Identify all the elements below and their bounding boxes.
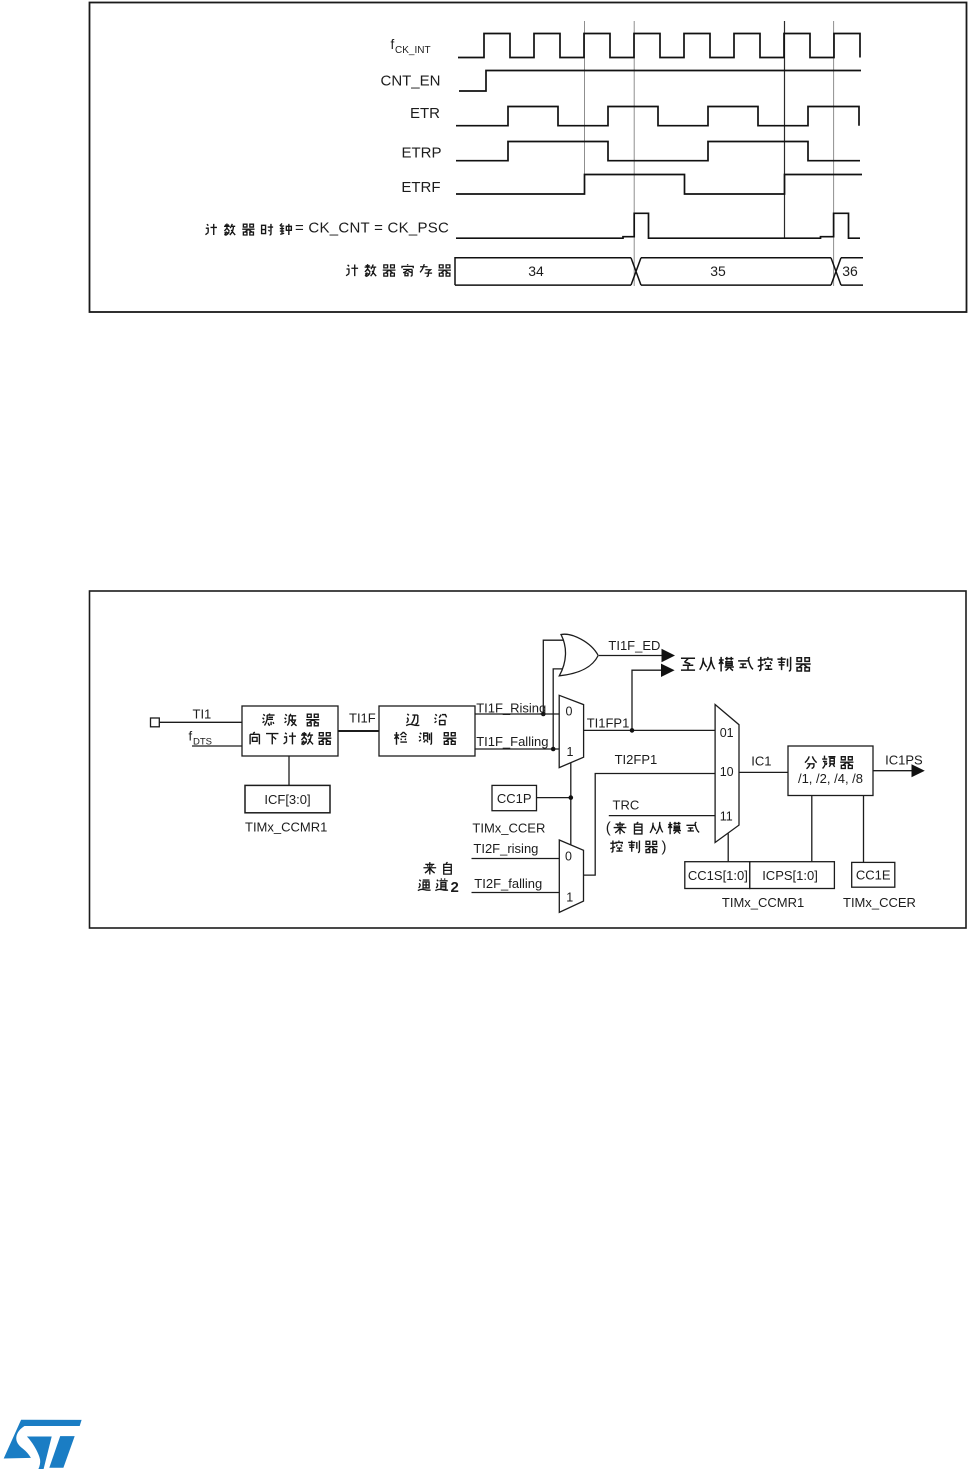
text 边沿 in detector box [406,714,446,726]
wire counter clock CK_CNT waveform with two pulses [456,213,860,238]
wire mux2 output up to TI2FP1 [584,774,716,876]
gridline at clock edge x=584 [584,21,586,174]
text 通道2 (channel 2) [418,879,448,891]
counter register bus bottom line [455,284,863,286]
ICF[3:0] box [245,785,330,812]
wire divider to CC1E box [863,796,865,863]
svg-text:ICF[3:0]: ICF[3:0] [264,792,310,807]
svg-text:CK_INT: CK_INT [395,45,431,56]
svg-text:TIMx_CCER: TIMx_CCER [843,895,916,910]
wire TI1F_Rising [475,713,559,715]
svg-text:f: f [391,37,395,52]
svg-text:TIMx_CCMR1: TIMx_CCMR1 [722,895,804,910]
svg-text:0: 0 [566,705,573,719]
wire big mux select to CC1S [727,834,729,862]
junction dot on TI1FP1 [630,728,635,733]
arrowhead IC1PS [912,764,925,777]
counter register bus top line [455,258,863,285]
text 至从模式控制器 (to slave mode controller) [681,657,811,672]
svg-text:36: 36 [842,263,858,279]
wire divider to ICPS box [811,796,813,862]
text 控制器) [610,841,657,853]
svg-text:TI1FP1: TI1FP1 [587,716,630,731]
svg-text:2: 2 [451,879,459,896]
svg-text:TI1: TI1 [193,707,212,722]
svg-text:ICPS[1:0]: ICPS[1:0] [762,868,818,883]
text 向下计数器 in filter box [250,732,331,745]
svg-text:ETR: ETR [410,105,440,122]
svg-text:): ) [662,839,667,856]
svg-text:ETRP: ETRP [401,145,441,162]
wire IC1PS output [873,770,912,772]
gridline at clock edge x=833 [833,21,835,286]
svg-text:IC1: IC1 [751,754,771,769]
junction dot on select line [569,795,574,800]
wire TI1F [338,730,379,732]
text 来自 (from) [423,862,451,874]
CC1E box [852,862,895,887]
wire CC1P to select line [537,797,571,799]
svg-text:(: ( [606,820,611,837]
wire ETRF waveform [456,175,862,195]
figure 2 frame [90,591,967,928]
svg-text:01: 01 [720,726,734,740]
bus crossover X2 [831,258,841,285]
svg-text:TI2F_falling: TI2F_falling [474,876,542,891]
ICPS[1:0] box [750,862,835,889]
arrowhead TI1F_ED [662,649,676,663]
svg-text:TI2F_rising: TI2F_rising [473,841,538,856]
wire TI1FP1 to slave mode controller branch [632,670,662,730]
bus crossover X1 [631,258,641,285]
label 计数器时钟 (counter clock) [205,223,291,235]
wire to ICF box [288,756,290,785]
svg-text:0: 0 [565,850,572,864]
svg-text:= CK_CNT = CK_PSC: = CK_CNT = CK_PSC [295,220,449,237]
filter box 滤波器向下计数器 [242,706,338,756]
multiplexer mux3 (input selection CC1S) [715,705,739,843]
svg-text:TIMx_CCMR1: TIMx_CCMR1 [245,820,327,835]
text 分频器 (divider) [805,756,853,769]
junction dot on TI1F_Falling [551,747,556,752]
wire ETRP waveform [456,142,860,161]
svg-text:DTS: DTS [193,736,212,747]
wire TI1 [159,721,242,723]
wire ETR waveform [456,107,859,126]
wire TI2F_rising [472,858,560,860]
svg-text:CNT_EN: CNT_EN [380,73,440,90]
svg-text:TIMx_CCER: TIMx_CCER [472,821,545,836]
text 滤波器 in filter box [263,713,320,725]
svg-text:1: 1 [566,891,573,905]
input pin TI1 square [151,718,160,727]
svg-text:f: f [189,728,193,743]
ST logo [4,1420,82,1469]
svg-text:10: 10 [720,765,734,779]
wire OR gate bottom input riser [553,669,566,749]
wire OR gate output TI1F_ED [599,655,663,657]
gridline (dark) at clock edge x=784 [784,21,786,238]
label 计数器寄存器 (counter register) [346,264,451,276]
svg-text:TI2FP1: TI2FP1 [615,752,658,767]
svg-text:11: 11 [720,809,733,823]
wire f_DTS [192,745,242,747]
multiplexer mux1 (TI1 edge polarity) [559,695,583,767]
junction dot on TI1F_Rising [541,712,546,717]
svg-text:TI1F_Falling: TI1F_Falling [476,734,548,749]
or-gate U1 (edge OR) [559,634,598,676]
arrowhead to slave mode controller [661,664,675,677]
svg-text:TI1F: TI1F [349,711,376,726]
divider box 分频器 [788,746,873,796]
wire TI1FP1 [584,729,716,731]
svg-text:34: 34 [528,263,544,279]
gridline at clock edge x=634 [633,21,635,286]
svg-text:ETRF: ETRF [401,179,440,196]
wire IC1 [739,771,788,773]
svg-text:IC1PS: IC1PS [885,753,923,768]
wire CNT_EN waveform [459,71,861,92]
svg-text:TI1F_ED: TI1F_ED [608,638,660,653]
CC1P box [492,785,537,810]
wire f_CK_INT clock waveform [458,34,860,58]
edge detector box 边沿检测器 [379,706,475,756]
wire TRC [609,815,715,817]
svg-text:CC1E: CC1E [856,868,891,883]
svg-text:CC1P: CC1P [497,791,532,806]
wire TI2F_falling [472,892,560,894]
wire TI1F_Falling [475,748,559,750]
svg-text:35: 35 [710,263,726,279]
text 检测器 in detector box [394,732,456,745]
svg-text:CC1S[1:0]: CC1S[1:0] [688,868,748,883]
CC1S[1:0] box [685,862,750,889]
svg-text:1: 1 [567,745,574,759]
svg-text:TRC: TRC [613,798,640,813]
wire OR gate top input riser [543,640,566,714]
svg-text:/1, /2, /4, /8: /1, /2, /4, /8 [798,771,863,786]
wire mux1 to mux2 select line [570,763,572,845]
figure 1 frame [90,3,967,313]
multiplexer mux2 (TI2 edge polarity) [559,840,583,912]
svg-text:TI1F_Rising: TI1F_Rising [476,701,546,716]
